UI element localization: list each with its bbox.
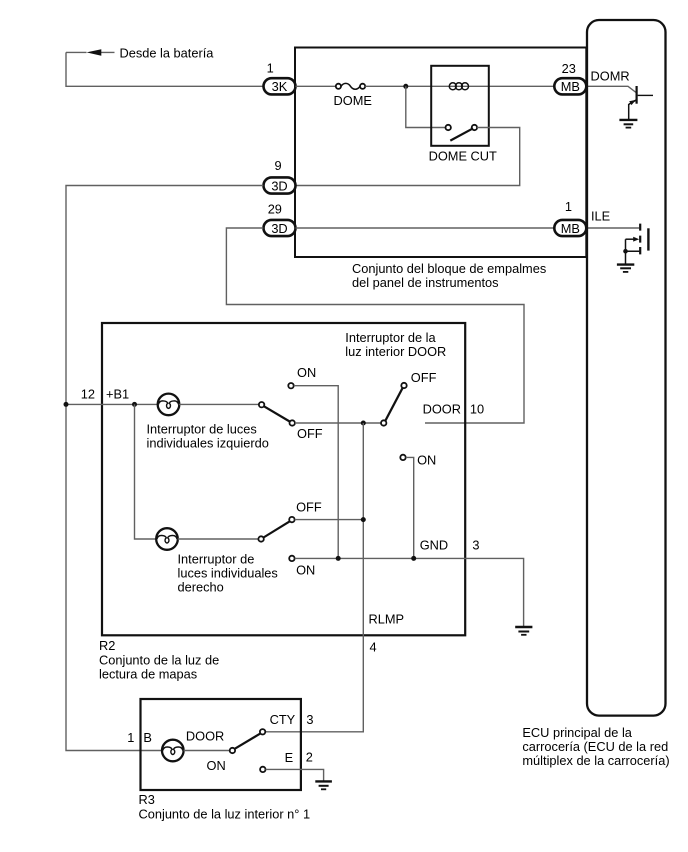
svg-text:Desde la batería: Desde la batería (120, 45, 215, 60)
wire lamp L3 to switch S4 (184, 750, 230, 752)
connector 3K (264, 78, 296, 94)
svg-text:4: 4 (370, 640, 377, 655)
wire S1 ON contact right and down (294, 386, 339, 559)
svg-text:ON: ON (417, 453, 436, 468)
wire S2 OFF contact to RLMP line (295, 519, 364, 521)
wire battery feed down and right to 3K (66, 52, 263, 86)
wire MB-23 to transistor (587, 86, 637, 92)
svg-text:+B1: +B1 (106, 387, 129, 402)
wire relay contact to 3D-9 row (296, 128, 520, 186)
wire 3D-29 left, down, right and down to DOOR pin 10 (226, 228, 524, 423)
fuse DOME (334, 83, 372, 107)
node dot GND row right (411, 556, 416, 561)
svg-text:MB: MB (561, 79, 580, 94)
svg-text:3D: 3D (271, 221, 287, 236)
connector 3D pin 9 (264, 177, 296, 193)
battery feed arrow "Desde la bateria" (66, 45, 214, 60)
S2 switch text labels (178, 551, 278, 594)
svg-text:individuales izquierdo: individuales izquierdo (147, 435, 269, 450)
wire junction dot down to relay contact (406, 86, 446, 127)
svg-text:luces individuales: luces individuales (178, 565, 278, 580)
relay contact left (446, 125, 451, 130)
connector 3D pin 29 (264, 220, 296, 236)
svg-text:ON: ON (207, 758, 226, 773)
svg-text:29: 29 (268, 202, 282, 217)
svg-text:E: E (285, 750, 294, 765)
switch S3 DOOR (interior light DOOR switch) (381, 383, 407, 460)
svg-text:Interruptor de luces: Interruptor de luces (147, 421, 257, 436)
relay contact right (472, 125, 477, 130)
connector MB pin 23 (554, 78, 586, 94)
svg-text:múltiplex de la carrocería): múltiplex de la carrocería) (522, 753, 669, 768)
junction block box (Conjunto del bloque de empalmes) (295, 48, 586, 258)
svg-text:DOME CUT: DOME CUT (429, 149, 497, 164)
transistor Q1 (DOMR output, inside ECU) (629, 86, 653, 119)
wire DOME fuse to relay coil and MB-23 (365, 85, 554, 87)
svg-text:Interruptor de la: Interruptor de la (345, 330, 436, 345)
svg-text:ILE: ILE (591, 209, 610, 224)
svg-text:Conjunto de la luz interior n°: Conjunto de la luz interior n° 1 (139, 806, 311, 821)
wire lamp branch down to lamp L2 (135, 404, 157, 539)
wire lamp L2 to switch S2 (178, 538, 259, 540)
svg-text:R2: R2 (99, 638, 115, 653)
wire lamp L1 to switch S1 (179, 403, 259, 405)
wire E contact to ground (266, 769, 324, 781)
svg-text:12: 12 (81, 387, 95, 402)
MOSFET Q2 (ILE output, inside ECU) (623, 224, 648, 265)
wire GND row out of R2 to ground (295, 558, 524, 626)
svg-text:ON: ON (297, 365, 316, 380)
svg-text:R3: R3 (139, 792, 155, 807)
wire MB-1 to MOSFET (587, 227, 640, 229)
R3 outer labels (139, 792, 311, 821)
node dot OFF2 junction (361, 517, 366, 522)
svg-text:del panel de instrumentos: del panel de instrumentos (352, 275, 499, 290)
wire +B1 feed into R2 to lamp L1 (66, 403, 158, 405)
R3 interior light assembly box (141, 699, 301, 790)
svg-text:10: 10 (470, 402, 484, 417)
node junction dot before relay (403, 84, 408, 89)
svg-text:derecho: derecho (178, 580, 224, 595)
switch S4 (interior light DOOR/ON switch) (230, 729, 266, 772)
svg-text:Interruptor de: Interruptor de (178, 551, 255, 566)
lamp L2 (right map lamp) (156, 528, 178, 550)
svg-text:CTY: CTY (270, 712, 296, 727)
svg-text:2: 2 (306, 749, 313, 764)
relay coil (449, 83, 468, 90)
ground (R2 GND) (515, 627, 532, 635)
svg-text:Conjunto del bloque de empalme: Conjunto del bloque de empalmes (352, 261, 546, 276)
svg-text:lectura de mapas: lectura de mapas (99, 667, 197, 682)
svg-text:carrocería (ECU de la red: carrocería (ECU de la red (522, 739, 668, 754)
svg-text:23: 23 (562, 61, 576, 76)
wire S1 OFF contact to DOOR switch pivot (295, 422, 381, 424)
svg-text:3K: 3K (272, 79, 288, 94)
svg-text:1: 1 (267, 60, 274, 75)
R2 outer labels (99, 638, 219, 682)
ground (transistor emitter) (619, 120, 637, 128)
node dot on RLMP line at DOOR wire (361, 421, 366, 426)
svg-text:Conjunto de la luz de: Conjunto de la luz de (99, 652, 219, 667)
switch S1 (left individual light switch) (259, 383, 295, 426)
svg-text:DOMR: DOMR (591, 68, 630, 83)
ECU main body box (587, 20, 666, 716)
svg-text:DOOR: DOOR (423, 402, 461, 417)
node dot GND row left (336, 556, 341, 561)
svg-text:3: 3 (472, 538, 479, 553)
node dot at left feed (64, 402, 69, 407)
wire RLMP line down to R3 CTY (265, 423, 363, 732)
wire DOOR ON contact stub down (406, 457, 414, 558)
S1 switch text labels (147, 421, 269, 450)
svg-text:ECU principal de la: ECU principal de la (522, 725, 632, 740)
svg-text:luz interior DOOR: luz interior DOOR (345, 344, 446, 359)
ground (R3 E) (315, 781, 332, 789)
svg-text:DOOR: DOOR (186, 729, 224, 744)
svg-text:OFF: OFF (411, 370, 437, 385)
R2 map light assembly box (102, 323, 465, 635)
svg-text:1: 1 (127, 730, 134, 745)
relay DOME CUT box (431, 66, 489, 146)
svg-text:3: 3 (306, 712, 313, 727)
wire 3K to DOME fuse (296, 85, 336, 87)
svg-text:MB: MB (561, 221, 580, 236)
node dot +B1 branch (132, 402, 137, 407)
svg-text:ON: ON (296, 563, 315, 578)
relay switch blade (450, 128, 473, 140)
svg-text:GND: GND (420, 538, 448, 553)
svg-text:RLMP: RLMP (369, 611, 405, 626)
wire 3D-29 to MB-1 across junction block (296, 227, 555, 229)
svg-text:DOME: DOME (334, 93, 372, 108)
svg-text:3D: 3D (271, 178, 287, 193)
svg-text:B: B (143, 730, 152, 745)
connector MB pin 1 (554, 220, 586, 236)
ECU label (522, 725, 669, 768)
ground (MOSFET source) (617, 265, 634, 272)
lamp L1 (left map lamp) (158, 394, 180, 416)
R2 inner label (Interruptor de la luz interior DOOR) (345, 330, 446, 359)
junction block label (352, 261, 546, 290)
svg-text:1: 1 (565, 199, 572, 214)
svg-text:OFF: OFF (297, 426, 323, 441)
svg-text:9: 9 (275, 158, 282, 173)
wire 3D-9 left and down the left side to R3 (66, 186, 263, 751)
lamp L3 (interior lamp) (162, 740, 184, 762)
svg-text:OFF: OFF (296, 500, 322, 515)
switch S2 (right individual light switch) (258, 517, 294, 561)
